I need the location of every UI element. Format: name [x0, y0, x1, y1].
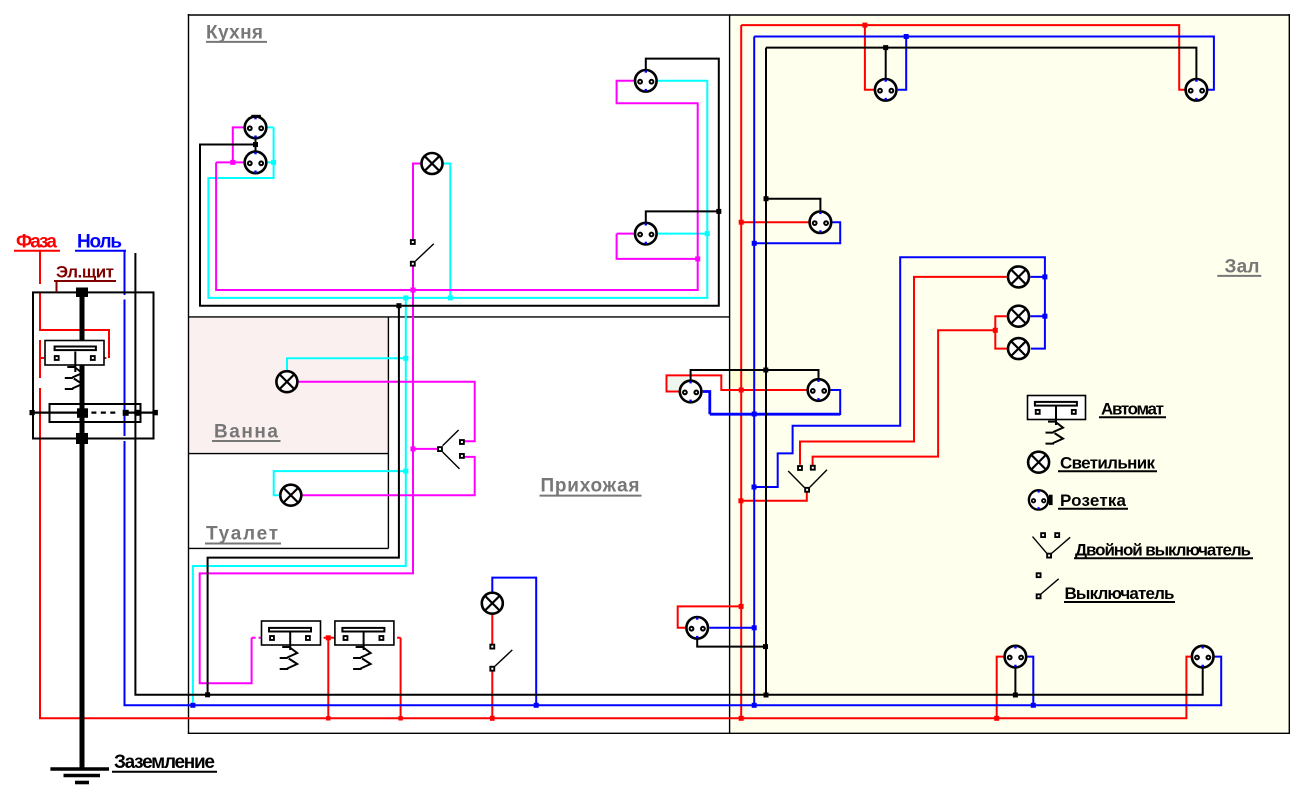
svg-text:Кухня: Кухня — [206, 23, 263, 44]
svg-text:Прихожая: Прихожая — [541, 476, 640, 497]
svg-text:Розетка: Розетка — [1060, 491, 1127, 510]
svg-text:Фаза: Фаза — [16, 232, 57, 253]
svg-text:Светильник: Светильник — [1060, 454, 1155, 473]
svg-text:Ванна: Ванна — [214, 422, 278, 443]
svg-text:Заземление: Заземление — [114, 752, 215, 773]
svg-text:Зал: Зал — [1225, 257, 1260, 278]
svg-text:Выключатель: Выключатель — [1065, 584, 1175, 603]
svg-text:Ноль: Ноль — [77, 232, 122, 253]
svg-text:Автомат: Автомат — [1101, 400, 1164, 419]
svg-text:Двойной выключатель: Двойной выключатель — [1075, 541, 1251, 560]
svg-text:Эл.щит: Эл.щит — [56, 263, 114, 282]
